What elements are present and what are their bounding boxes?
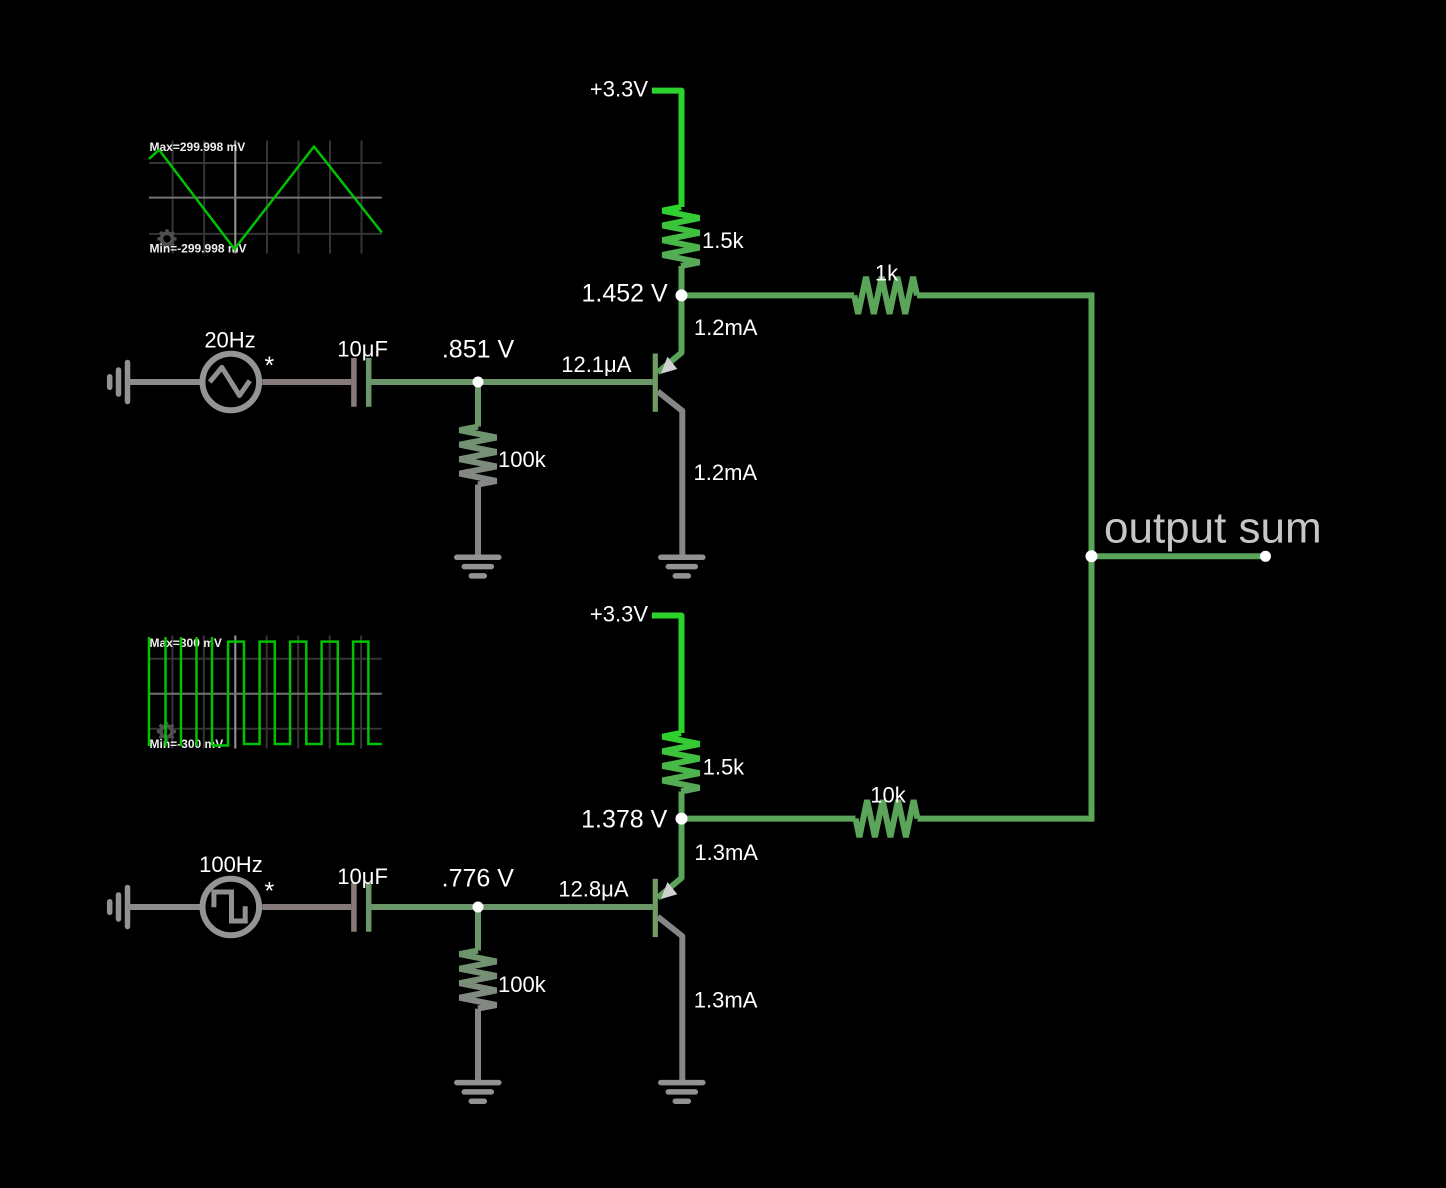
wire R4 to node A2 [679,792,685,819]
node dot A2 (1.378 V) [676,813,688,825]
wire S2 to capacitor C2 [262,904,351,910]
svg-text:*: * [265,877,275,905]
node dot B2 (.776 V) [473,902,484,913]
capacitor C1 left plate [351,358,357,407]
svg-text:10μF: 10μF [337,337,388,362]
svg-text:.776 V: .776 V [442,864,515,892]
capacitor C2 right plate [366,883,372,932]
svg-text:output sum: output sum [1104,504,1322,553]
wire node B2 down to R5 [475,907,481,951]
svg-text:100k: 100k [498,447,547,472]
S2 square-wave glyph [214,892,245,921]
scope 1 marker gridlines [234,141,236,254]
scope 2 grid [149,636,382,749]
ground (Q1 emitter) [661,557,703,576]
transistor Q1 base bar [653,354,658,412]
wire S1 to capacitor C1 [262,379,351,385]
resistor R5 100k zigzag [460,951,497,1009]
svg-text:10μF: 10μF [337,864,388,889]
capacitor C2 left plate [351,883,357,932]
voltage source S2 circle (square wave 100Hz) [203,879,260,936]
svg-text:10k: 10k [870,783,906,808]
scope 1 grid [149,141,382,254]
transistor Q1 arrow [661,357,678,374]
wire node A2 to R6 [682,816,856,822]
wire R3 to output column [917,292,1092,298]
svg-text:1.5k: 1.5k [703,755,746,780]
wire ground to source 2 [128,904,201,910]
supply rail +3.3V (stage 2) [652,616,682,734]
wire C2 to node B2 to transistor base [371,904,653,910]
scope 2 marker gridlines [234,636,236,749]
svg-text:Min=-299.998 mV: Min=-299.998 mV [150,241,247,255]
svg-text:12.1μA: 12.1μA [561,352,631,377]
resistor R6 10k zigzag [856,800,918,837]
resistor R3 1k zigzag [854,277,917,314]
scope 1 gear icon [157,229,176,248]
svg-text:1.3mA: 1.3mA [694,840,758,865]
voltage source S1 circle (triangle wave 20Hz) [203,354,260,411]
svg-text:Max=299.998 mV: Max=299.998 mV [150,140,246,154]
ground (below R2) [457,557,499,576]
scope 1 triangle waveform [149,147,382,250]
scope 2 square waveform [148,637,151,746]
wire C1 to node B1 to transistor base [371,379,653,385]
svg-text:1.378 V: 1.378 V [581,806,668,834]
node dot A1 (1.452 V) [676,289,688,301]
resistor R2 100k zigzag [460,427,497,485]
wire output column vertical [1089,292,1095,821]
ground (source 2, sideways) [110,888,128,927]
wire R1 to node A1 [679,266,685,295]
transistor Q1 emitter lead [658,391,683,556]
wire R6 to output column [918,816,1092,822]
resistor R4 1.5k zigzag (stage 2) [663,733,700,792]
svg-text:1.2mA: 1.2mA [694,460,758,485]
wire node A1 to R3 [682,292,855,298]
svg-text:1k: 1k [875,261,899,286]
svg-text:1.3mA: 1.3mA [694,987,758,1012]
wire R5 to ground [475,1009,481,1082]
svg-text:.851 V: .851 V [442,335,515,363]
transistor Q1 collector lead [658,295,682,372]
node dot output junction [1086,550,1098,562]
svg-text:100k: 100k [498,972,547,997]
svg-text:1.5k: 1.5k [702,228,745,253]
svg-text:100Hz: 100Hz [199,852,263,877]
svg-text:+3.3V: +3.3V [590,77,648,102]
svg-text:1.2mA: 1.2mA [694,315,758,340]
capacitor C1 right plate [366,358,372,407]
transistor Q2 base bar [653,879,658,937]
wire R2 to ground [475,485,481,557]
wire node B1 down to R2 [475,382,481,427]
transistor Q2 collector lead [658,819,682,898]
svg-text:20Hz: 20Hz [204,328,255,353]
S1 triangle-wave glyph [210,367,250,395]
ground (Q2 emitter) [661,1083,703,1102]
svg-text:12.8μA: 12.8μA [558,876,628,901]
wire ground to source 1 [128,379,201,385]
resistor R1 1.5k zigzag (stage 1) [663,207,700,266]
supply rail +3.3V (stage 1) [652,91,682,207]
wire output stub [1092,553,1266,559]
transistor Q2 arrow [661,882,678,899]
svg-text:1.452 V: 1.452 V [582,280,669,308]
scope 2 gear icon [157,722,176,741]
node dot B1 (.851 V) [473,377,484,388]
svg-text:*: * [265,352,275,380]
transistor Q2 emitter lead [658,917,683,1082]
ground (source 1, sideways) [110,363,128,402]
node dot output terminal [1260,551,1271,562]
svg-text:+3.3V: +3.3V [590,602,648,627]
ground (below R5) [457,1083,499,1102]
